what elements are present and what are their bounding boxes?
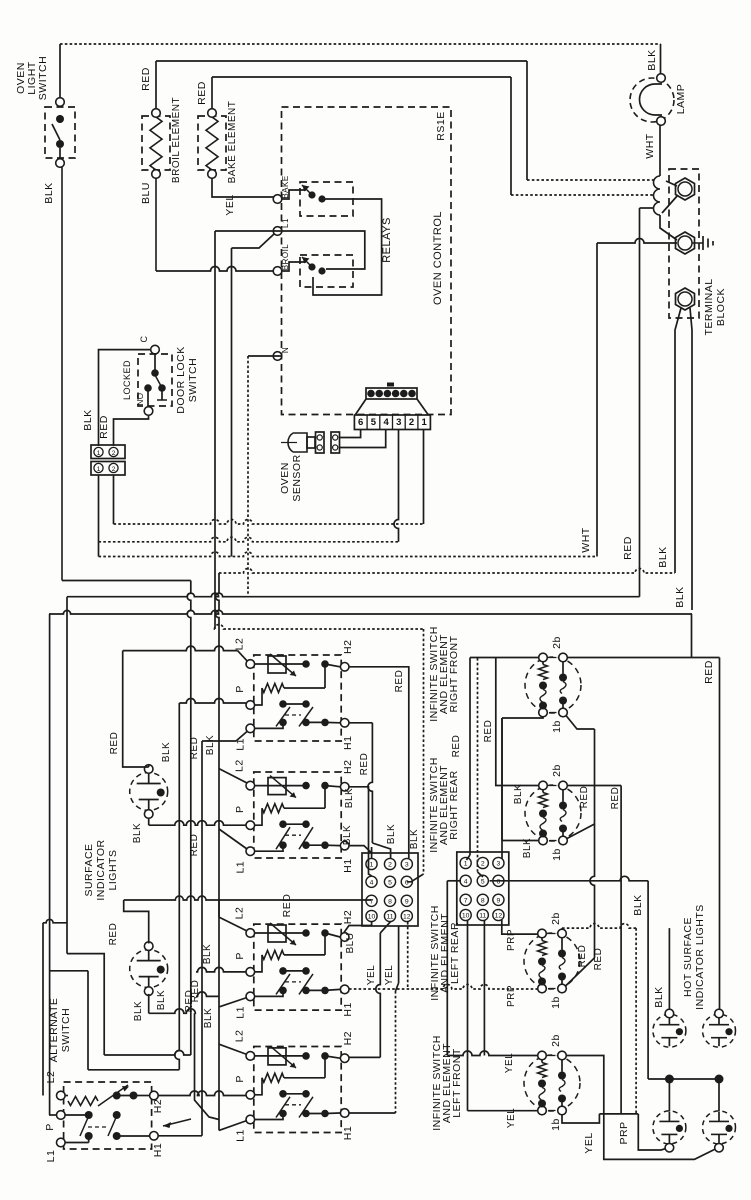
wire - L1 diag bus down x=231.5 [231,248,233,557]
svg-text:2: 2 [112,450,116,457]
svg-text:3: 3 [405,862,409,869]
wire - pin3 down to door lock bus [394,430,399,542]
wire - BLK corridor x=219 from BLK bus 573 [215,573,219,1130]
svg-text:RED: RED [184,990,195,1013]
svg-text:P: P [234,805,246,813]
svg-text:4: 4 [383,417,389,428]
terminal block TB1 [669,169,699,318]
S1 terminal H2 [340,663,349,672]
svg-text:7: 7 [464,897,468,904]
svg-text:RED: RED [483,720,494,743]
connector J2 left half [362,853,418,926]
wire - right pin5 feed dotted from 657.5 [477,658,479,872]
S3 pilot resistor [255,955,262,972]
S2 pilot resistor [255,808,262,825]
svg-text:6: 6 [497,878,501,885]
S2 thermostat [255,785,306,787]
svg-text:BLK: BLK [646,49,658,70]
svg-text:SWITCH: SWITCH [60,1008,72,1052]
svg-text:BLK: BLK [202,944,213,964]
LR terminal dashes [549,933,556,935]
RF contact [562,662,564,674]
svg-text:5: 5 [371,417,377,428]
RR terminal dashes [550,785,557,787]
svg-text:RED: RED [577,945,588,968]
svg-text:RS1E: RS1E [435,111,447,140]
svg-text:L2: L2 [234,1030,246,1043]
wire - N bus down x=248 [248,355,282,357]
hot surface light DS6 [703,1111,736,1144]
oven sensor connector halves [316,432,325,453]
svg-text:RED: RED [593,948,604,971]
svg-text:L2: L2 [45,1071,57,1084]
S4 terminal P [246,1091,255,1100]
svg-text:BLK: BLK [653,986,665,1007]
wire - LF 2b right chain (YEL) to light D [566,1056,718,1160]
svg-text:YEL: YEL [504,1053,515,1073]
svg-text:LIGHTS: LIGHTS [107,850,119,891]
svg-text:3: 3 [497,861,501,868]
svg-text:P: P [234,685,246,693]
wire - RR 1b left feed [502,840,539,842]
S3 terminal L2 [246,929,255,938]
door lock connector lower half [91,462,125,476]
bus BLK y=614 [49,610,692,614]
S2 terminal L1 [246,847,255,856]
svg-text:RED: RED [108,923,119,946]
svg-text:RED: RED [394,670,405,693]
svg-text:BLK: BLK [522,838,533,858]
surface switch S3 box [254,924,341,1010]
svg-text:NO: NO [136,393,145,406]
svg-text:8: 8 [481,897,485,904]
svg-text:2b: 2b [550,1034,562,1047]
svg-text:7: 7 [370,898,374,905]
oven light switch S1 [45,107,75,158]
wire - lights bus with junction dots [648,1078,719,1080]
wire - RR 2b right line [567,785,621,787]
svg-text:11: 11 [386,914,393,921]
wire - right pin4 chain to LF 2b [447,880,461,882]
svg-text:RED: RED [196,81,208,105]
wire - S3 P feed [196,967,246,972]
svg-text:YEL: YEL [366,965,377,985]
wire - RED bus vertical right (bake red down) [639,208,641,597]
svg-text:11: 11 [479,913,486,920]
svg-text:BLK: BLK [342,825,353,845]
crimp bumps at terminal block [654,176,660,215]
relay K2 broil [300,255,353,287]
wire - RED drop x=621.1 [620,786,622,1114]
wire - light1 bottom to S2 P [148,819,150,826]
S3 terminal H1 [340,985,349,994]
wire - L2 feed to S1 from light1 [123,646,238,651]
svg-text:H1: H1 [342,1126,354,1140]
S1 contacts [279,700,287,708]
wire lug from screw3 - right side BLK [690,308,692,610]
hot surface light DS5 [653,1111,686,1144]
svg-text:1: 1 [422,417,428,428]
svg-text:DOOR LOCK: DOOR LOCK [175,346,187,414]
svg-text:SURFACE: SURFACE [83,843,95,896]
RR contact [562,790,564,802]
svg-text:1: 1 [370,862,374,869]
svg-text:5: 5 [481,878,485,885]
S4 terminal H2 [340,1054,349,1063]
bus RED y=596.7 [67,593,640,597]
wire - L1 feed diag to S1 [236,732,247,742]
wire - S2 H2 to left pin4 [349,787,372,876]
wire - xB to S3 L2 drop [218,900,220,917]
svg-text:YEL: YEL [583,1132,595,1153]
wire - L1 diagonal to bus [232,234,275,248]
svg-text:L2: L2 [234,907,246,920]
wire - right pin3 from RF switch 1b [502,716,543,718]
svg-text:BROIL ELEMENT: BROIL ELEMENT [171,97,182,183]
svg-text:6: 6 [405,879,409,886]
bus WHT y=556.5 [99,552,598,557]
S2 contacts [279,820,287,828]
RR element resistor [542,790,544,793]
svg-text:BLK: BLK [43,182,55,203]
svg-text:1: 1 [97,466,101,473]
S3 thermostat [255,932,306,934]
hot surface light DS3 [653,1014,686,1047]
svg-text:L2: L2 [234,638,246,651]
svg-text:BLK: BLK [132,823,143,843]
wire - pin1 down to WHT bus [98,475,100,557]
svg-text:H2: H2 [342,640,354,654]
wire - alt H2 to S4 P [158,1091,246,1096]
svg-text:H2: H2 [152,1099,164,1113]
svg-text:N: N [281,347,290,353]
svg-text:2: 2 [388,862,392,869]
svg-text:BLK: BLK [205,735,216,755]
wire - S2 L1 diag [219,829,247,849]
LF terminal dashes [549,1055,556,1057]
wire - P-row vertical x=179.3 [175,703,180,1070]
ground symbol [692,242,703,244]
indicator light DS2 (surface) [130,950,168,988]
svg-text:1b: 1b [551,720,563,733]
svg-text:2: 2 [481,861,485,868]
LR contact [561,938,563,950]
svg-text:BLK: BLK [161,742,172,762]
wire - broil BLU down to BROIL terminal [155,178,157,271]
terminal screw 2 (neutral/ground) [676,232,695,254]
svg-text:4: 4 [370,879,374,886]
wire - WHT bus vertical right [596,243,598,557]
terminal screw 3 (L2) [676,288,695,310]
svg-text:10: 10 [462,913,470,920]
wire - oven light switch top lead [59,44,61,102]
svg-text:PRP: PRP [618,1121,630,1144]
S4 contacts [279,1090,287,1098]
svg-text:2b: 2b [550,912,562,925]
wire - S3 L2 diag [219,917,247,931]
indicator light DS1 (surface) [130,773,168,811]
hot surface light DS4 [703,1014,736,1047]
svg-text:1: 1 [97,450,101,457]
svg-text:OVEN CONTROL: OVEN CONTROL [432,211,444,305]
svg-text:BLK: BLK [386,824,397,844]
svg-text:6: 6 [358,417,363,428]
svg-text:RED: RED [610,787,621,810]
svg-text:RED: RED [451,735,462,758]
wire - left pin10 to S3 H2 [344,922,372,933]
plug trapezoid [356,399,367,415]
svg-text:LOCKED: LOCKED [122,360,132,400]
svg-text:BLK: BLK [156,990,167,1010]
svg-text:BLK: BLK [203,1008,214,1028]
wire - P feed to S1 [179,699,246,704]
svg-text:BLK: BLK [674,586,686,607]
S3 contacts [279,967,287,975]
wire - S1 H1 to left pin2 (RED) [349,722,372,724]
wire - alt switch L2 feed from staircase [42,923,44,1096]
svg-text:PRP: PRP [506,929,517,951]
svg-text:1b: 1b [551,848,563,861]
wire - y=741 link [202,740,236,742]
infinite switch RR [525,785,581,841]
svg-text:H1: H1 [152,1143,164,1157]
wire - LR 2b right chain to x=636 (dotted) [561,928,563,929]
wire - light A top feed [668,928,670,1009]
svg-text:10: 10 [368,914,376,921]
S3 L1 stub [255,993,283,996]
S3 terminal H2 [340,933,349,942]
svg-text:INDICATOR LIGHTS: INDICATOR LIGHTS [694,904,706,1010]
wire - LR 1b right diag up [565,958,595,987]
wire - light1 top feed [148,766,150,768]
S2 terminal P [246,821,255,830]
wire - BLK top bus down to lamp [660,44,662,74]
svg-text:RELAYS: RELAYS [381,217,393,263]
S1 terminal P [246,701,255,710]
callout arrow to alternate switch [163,1119,191,1126]
svg-text:4: 4 [464,878,468,885]
wire - right side chain vertical x=594.5 [590,729,595,958]
svg-text:YEL: YEL [384,965,395,985]
svg-text:RED: RED [189,737,200,760]
svg-text:BLK: BLK [657,546,669,567]
svg-text:RIGHT FRONT: RIGHT FRONT [448,635,460,712]
svg-text:RED: RED [359,753,370,776]
svg-text:P: P [234,952,246,960]
svg-text:BLOCK: BLOCK [715,288,727,326]
infinite switch LF [524,1055,580,1111]
S2 terminal L2 [246,781,255,790]
door lock switch S2 [151,345,160,354]
lamp B1 [630,78,674,122]
svg-text:SWITCH: SWITCH [187,358,199,402]
wire - light2 bottom RED down [148,994,150,1013]
wire - staircase alpha [67,954,104,1055]
RF terminal dashes [550,657,557,659]
resistor - broil element [142,116,170,170]
S4 pilot resistor [255,1078,262,1095]
bus L1 y=629 to lights (dotted) [215,625,424,629]
terminal L1 [273,227,282,236]
wire - pin2 down [113,475,115,524]
RF element resistor [542,662,544,665]
svg-text:WHT: WHT [644,133,656,158]
svg-text:H2: H2 [342,760,354,774]
surface switch S2 box [254,772,341,858]
svg-text:YEL: YEL [506,1108,517,1128]
S4 L1 stub [255,1117,283,1120]
connector J2 right half [457,852,509,925]
svg-text:H1: H1 [342,1002,354,1016]
svg-text:L1: L1 [235,861,247,874]
wire - BLK feed to lights bus [647,881,649,1079]
svg-text:HOT SURFACE: HOT SURFACE [682,917,694,997]
wire - staircase beta y=1069.8 [50,970,88,972]
broil element RED lead [155,61,157,109]
wire - pin4 to sensor [340,430,386,448]
wire - door lock C wire [99,350,151,446]
svg-text:RED: RED [98,415,110,439]
svg-text:BAKE ELEMENT: BAKE ELEMENT [227,101,238,184]
svg-text:BLK: BLK [632,894,644,915]
wire - S2 L2 diag [219,769,247,783]
svg-text:5: 5 [388,879,392,886]
oven sensor [288,433,307,452]
svg-text:SWITCH: SWITCH [37,56,49,100]
svg-text:P: P [234,1075,246,1083]
svg-text:2: 2 [112,466,116,473]
wire - bake red wire corner down [660,215,677,240]
wire - S3 L1 feed [196,992,219,997]
wire - block edge to S4 H1 [398,926,400,983]
svg-text:L1: L1 [235,1006,247,1019]
alt switch internals [65,1095,68,1097]
wire - L1 bus down x=215 [214,231,216,629]
surface switch S1 box [254,655,341,741]
LF element resistor [541,1060,543,1063]
S1 terminal H1 [340,719,349,728]
svg-text:L1: L1 [281,218,290,228]
wire - BLK oven light vertical V1 x=190.8 [187,581,191,1056]
svg-text:RED: RED [189,834,200,857]
wire - door bus 541.8 (BLK) [99,537,399,542]
wire - alt P feed [49,1114,56,1116]
wire - L1 to broil relay [282,231,365,269]
svg-text:BLK: BLK [513,784,524,804]
svg-text:H1: H1 [342,736,354,750]
svg-text:RIGHT REAR: RIGHT REAR [448,770,460,840]
wire - bake relay output loop [313,199,382,295]
wire - diag to RR 1b right [567,824,595,839]
S1 L1 stub [255,725,283,728]
S4 thermostat [255,1055,306,1057]
svg-text:LEFT REAR: LEFT REAR [449,922,461,984]
door lock connector upper half [91,445,125,459]
svg-text:2: 2 [409,417,414,428]
svg-text:BLU: BLU [140,182,152,204]
wire - pin1 down to door lock bus [423,430,425,525]
svg-text:LAMP: LAMP [675,84,687,115]
wire - broil red horizontal [156,60,527,62]
infinite switch LR [524,933,580,989]
svg-text:P: P [44,1123,56,1131]
wire - left pin12 down to S3 H1 line (dotted) [407,922,409,989]
wire - 880.8 BLK line from pin6 to lights [490,876,649,880]
relay K1 bake [300,182,353,216]
S1 pilot resistor [255,688,262,705]
wire - S4 L2 diag [219,1044,247,1054]
svg-text:BLU: BLU [345,933,356,954]
svg-text:OVEN: OVEN [279,462,291,494]
bake element RED lead [211,77,213,109]
svg-text:L2: L2 [234,759,246,772]
terminal BAKE [273,195,282,204]
wire - L1 horizontal to bus [215,230,282,232]
svg-text:RED: RED [703,660,715,684]
S3 terminal P [246,968,255,977]
wire - pin6 to sensor [340,430,361,438]
S1 thermostat [255,663,306,665]
wire - RED corridor x=202 [201,741,203,1136]
svg-text:1b: 1b [550,996,562,1009]
wire - left pin6 from L1 bus 629 (dotted) [423,629,425,874]
wire - left RED drop x=67 [66,597,68,954]
infinite switch RF [525,657,581,713]
svg-text:H2: H2 [342,910,354,924]
S4 terminal L1 [246,1115,255,1124]
wire - S4 L1 diag [219,1121,247,1131]
svg-text:1: 1 [464,861,468,868]
svg-text:BLK: BLK [133,1001,144,1021]
wire - broil relay link [312,277,314,281]
svg-text:H1: H1 [342,858,354,872]
surface switch S4 box [254,1047,341,1133]
resistor - bake element [198,116,226,170]
S4 terminal L2 [246,1052,255,1061]
wire - lamp WHT down to terminal block [659,125,661,176]
svg-text:BLK: BLK [409,829,420,849]
wire - dotted S3H1 to LR 1b bus [349,985,538,989]
wire - oven light switch BLK down [61,167,63,581]
svg-text:C: C [139,336,149,343]
svg-text:1b: 1b [550,1118,562,1131]
wire - broil RED to terminal block [526,61,528,180]
svg-text:3: 3 [396,417,401,428]
svg-text:LEFT FRONT: LEFT FRONT [451,1048,463,1118]
svg-text:PRP: PRP [506,985,517,1007]
svg-text:WHT: WHT [580,527,592,552]
svg-text:TERMINAL: TERMINAL [703,278,715,335]
S2 terminal H1 [340,841,349,850]
svg-text:8: 8 [388,898,392,905]
S4 terminal H1 [340,1109,349,1118]
wire - S2 H1 to left pin1 [349,846,372,853]
wire - NO to connector [114,415,149,446]
svg-text:BLK: BLK [344,788,355,808]
svg-text:L1: L1 [235,1129,247,1142]
wire - bake YEL down and right to BAKE terminal [212,178,274,197]
svg-text:RED: RED [281,894,293,918]
svg-text:INDICATOR: INDICATOR [95,839,107,900]
terminal N [273,352,282,361]
wire - line 656.5 right to light B [567,657,719,659]
svg-text:RED: RED [140,67,152,91]
svg-text:12: 12 [495,913,503,920]
svg-text:2b: 2b [551,764,563,777]
LR element resistor [541,938,543,941]
wire - right pin11 down [483,920,485,1056]
oven control box U1 [282,107,452,415]
